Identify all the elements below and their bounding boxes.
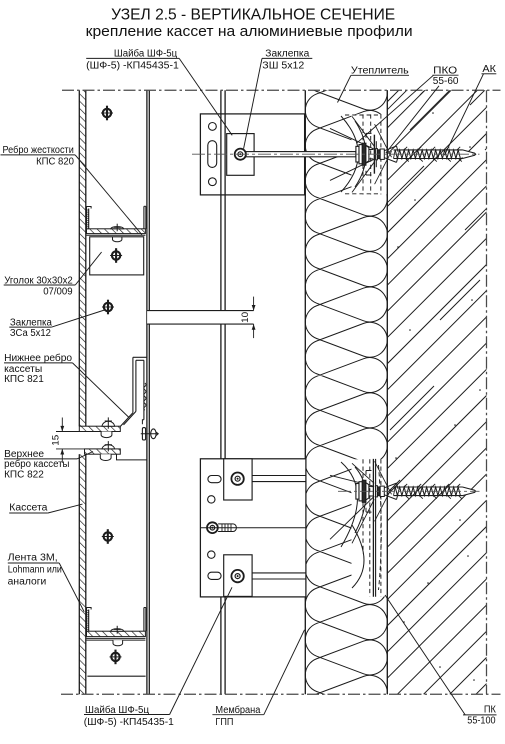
- compressed insulation zone at lower bracket: [352, 459, 388, 596]
- Лента 3М leader: [59, 563, 84, 612]
- svg-text:ГПП: ГПП: [215, 717, 233, 728]
- rivet on cassette (mid lower): [102, 536, 114, 538]
- svg-text:55-60: 55-60: [433, 76, 459, 87]
- rivet on washer plate: [235, 149, 246, 160]
- rivet on angle: [110, 255, 122, 257]
- stiffening rib КПС 820 channel left wall + 3M tape dots: [86, 207, 88, 229]
- АК leader: [445, 74, 484, 155]
- arm lines lower: [253, 572, 306, 574]
- svg-text:Мембрана: Мембрана: [215, 704, 260, 716]
- slot lower (lower bracket): [208, 572, 221, 579]
- anchor ПК 55-100 (lower): [356, 484, 359, 500]
- anchor ПКО 55-60 (upper): [356, 146, 359, 162]
- svg-text:Нижнее ребро: Нижнее ребро: [4, 352, 72, 364]
- right cut boundary (dash-dot): [486, 90, 488, 694]
- hole upper (lower bracket): [208, 496, 215, 503]
- svg-text:КПС 822: КПС 822: [4, 469, 44, 480]
- svg-text:Шайба ШФ-5ц: Шайба ШФ-5ц: [85, 704, 149, 716]
- rivet on cassette (mid upper): [102, 306, 114, 308]
- svg-text:КПС 821: КПС 821: [4, 374, 44, 385]
- svg-text:Утеплитель: Утеплитель: [351, 65, 409, 76]
- svg-text:Заклепка: Заклепка: [265, 48, 309, 59]
- svg-text:Лента 3М,: Лента 3М,: [8, 553, 58, 564]
- bracket (кронштейн) upper: [200, 114, 304, 195]
- rivet through profile at joint: [142, 428, 145, 440]
- rivet on cassette (top): [101, 112, 113, 114]
- rivet tail under upper flange: [101, 432, 112, 438]
- svg-text:УЗЕЛ 2.5 - ВЕРТИКАЛЬНОЕ СЕЧЕНИ: УЗЕЛ 2.5 - ВЕРТИКАЛЬНОЕ СЕЧЕНИЕ: [111, 7, 395, 24]
- wall face line: [386, 90, 388, 694]
- upper cassette face sheet (hatched): [79, 90, 86, 426]
- ПКО leader b: [386, 86, 439, 153]
- svg-text:аналоги: аналоги: [8, 576, 47, 587]
- bottom stiffening rib channel walls + tape dots: [86, 608, 88, 632]
- bracket (кронштейн) lower: [200, 459, 306, 597]
- svg-text:07/009: 07/009: [43, 286, 73, 297]
- Кассета leader: [48, 504, 83, 513]
- Уголок leader: [75, 252, 101, 285]
- dimension 15 (joint gap): [56, 431, 79, 433]
- svg-text:ЗСа 5х12: ЗСа 5х12: [10, 328, 51, 339]
- slot upper (lower bracket): [208, 476, 221, 483]
- rivet tail loop under rib: [113, 237, 122, 242]
- svg-text:(ШФ-5) -КП45435-1: (ШФ-5) -КП45435-1: [86, 60, 179, 71]
- Заклепка ЗШ leader: [244, 58, 262, 148]
- hole lower (lower bracket): [208, 551, 215, 558]
- svg-text:10: 10: [240, 312, 251, 323]
- svg-text:ПК: ПК: [484, 705, 496, 716]
- top cut boundary (dash-dot): [62, 89, 501, 91]
- washer plate upper (lower bracket): [224, 459, 252, 500]
- svg-text:Верхнее: Верхнее: [4, 449, 44, 460]
- washer plate lower (lower bracket): [224, 555, 252, 597]
- bottom rib flange (hatched): [87, 631, 146, 636]
- Утеплитель leader: [338, 75, 351, 102]
- нижнее ребро web (upper cassette bottom rib): [132, 357, 134, 412]
- compressed insulation zone at upper bracket: [352, 114, 388, 194]
- bracket hole top: [209, 123, 217, 131]
- bottom cut boundary (dash-dot): [61, 693, 501, 695]
- rivet on lower plate: [231, 570, 243, 582]
- svg-text:ребро кассеты: ребро кассеты: [4, 458, 69, 470]
- svg-text:55-100: 55-100: [467, 716, 496, 727]
- bracket back flange pressed to wall (lower): [372, 459, 374, 597]
- Верхнее ребро leader: [77, 452, 93, 459]
- svg-text:(ШФ-5) -КП45435-1: (ШФ-5) -КП45435-1: [84, 717, 174, 728]
- bracket hole bottom: [209, 178, 217, 186]
- svg-text:крепление кассет на алюминиевы: крепление кассет на алюминиевые профили: [86, 24, 413, 40]
- lower cassette face sheet (hatched): [79, 454, 86, 694]
- insulation batt (Утеплитель) loop hatch: [305, 59, 387, 744]
- rivet head on bottom rib: [111, 629, 124, 631]
- Ребро жесткости leader: [75, 155, 142, 235]
- Заклепка ЗСа leader: [52, 310, 105, 327]
- lower cassette top flange (hatched): [85, 449, 121, 454]
- rivet head on upper flange: [102, 421, 115, 426]
- cassette side wall / aluminium profile front (double line): [146, 90, 148, 694]
- upper cassette bottom flange (hatched): [79, 426, 120, 431]
- washer plate ШФ-5ц upper: [227, 134, 254, 176]
- svg-text:Lohmann или: Lohmann или: [8, 564, 62, 575]
- stiffening rib bottom flange (hatched): [87, 229, 146, 234]
- middle rivet with mandrel pin: [218, 523, 233, 525]
- 3M tape wavy texture on rib/profile: [144, 383, 146, 410]
- rivet on cassette (bottom): [110, 656, 122, 658]
- rivet head on rib flange: [111, 227, 124, 229]
- arm lines upper: [253, 475, 306, 477]
- cassette bottom inner line: [87, 675, 145, 677]
- bracket vertical slot: [208, 141, 217, 168]
- верхнее ребро bend line: [117, 454, 148, 460]
- horizontal joint profile bar: [147, 311, 254, 325]
- svg-text:15: 15: [51, 435, 62, 446]
- svg-text:Ребро жесткости: Ребро жесткости: [3, 144, 74, 156]
- svg-text:Шайба ШФ-5ц: Шайба ШФ-5ц: [114, 47, 178, 59]
- ПК leader: [385, 595, 465, 715]
- Шайба ШФ-5ц upper leader: [179, 58, 232, 135]
- rivet tail under lower flange: [100, 454, 111, 460]
- Шайба ШФ-5ц lower leader: [170, 587, 232, 714]
- rivet head on lower flange: [102, 445, 115, 449]
- svg-text:Кассета: Кассета: [9, 503, 48, 514]
- Мембрана leader: [264, 630, 305, 715]
- rivet on upper plate: [231, 473, 243, 485]
- Нижнее ребро leader: [73, 363, 130, 418]
- bracket back flange pressed to wall (upper): [373, 135, 375, 174]
- bracket middle bend line: [200, 527, 306, 529]
- rivet tail loop bottom rib: [113, 640, 123, 646]
- ПКО leader a: [357, 75, 434, 143]
- aluminium vertical profile (double line): [220, 90, 222, 694]
- svg-text:КПС 820: КПС 820: [36, 156, 74, 167]
- svg-text:ЗШ 5х12: ЗШ 5х12: [262, 60, 304, 71]
- anchor rod: [246, 152, 356, 157]
- dimension 10: [253, 297, 255, 311]
- insulation left boundary line: [304, 90, 306, 694]
- angle Уголок 30х30х2: [90, 237, 144, 275]
